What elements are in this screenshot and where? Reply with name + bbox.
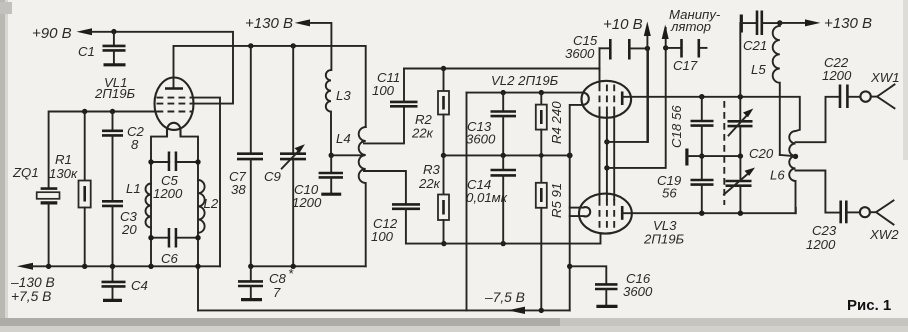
inductor L2: [198, 180, 219, 233]
wire C21 drop to anode line: [739, 23, 741, 97]
power +10V arrow and label: [603, 16, 651, 48]
power keying input (Manipulyator) arrow and label: [662, 7, 721, 39]
svg-text:L3: L3: [336, 88, 351, 103]
svg-text:C21: C21: [743, 38, 767, 53]
svg-text:L6: L6: [770, 168, 785, 183]
variable capacitor C20 gang link (dashed): [723, 101, 725, 205]
svg-text:22к: 22к: [411, 126, 434, 141]
node +10V junction: [645, 46, 650, 51]
svg-text:2П19Б: 2П19Б: [94, 86, 136, 101]
node R4/R5 mid: [539, 153, 544, 158]
node C17 tap on key line: [663, 45, 668, 50]
tube VL2: [582, 81, 632, 118]
svg-text:C23: C23: [812, 223, 837, 238]
capacitor C5: [148, 152, 200, 202]
capacitor C6: [148, 228, 200, 266]
inductor L6: [770, 131, 796, 213]
capacitor C16: [570, 266, 653, 306]
svg-text:100: 100: [371, 229, 394, 244]
wire L3 tap to L4: [331, 154, 364, 156]
capacitor C19: [657, 173, 714, 213]
wire L6 top tap to C22: [796, 97, 840, 142]
svg-text:+10 В: +10 В: [603, 16, 643, 33]
power +130V arrow and label (left): [245, 15, 331, 70]
svg-text:7: 7: [273, 285, 281, 300]
crystal ZQ1: [12, 165, 60, 266]
capacitor C22: [822, 55, 860, 108]
svg-text:XW1: XW1: [870, 70, 900, 85]
svg-text:L1: L1: [126, 181, 141, 196]
capacitor C3: [102, 135, 138, 266]
node C1 top junction: [111, 29, 116, 34]
wire L6 lower tap to C23: [796, 171, 840, 213]
wire driver mid bias line: [444, 154, 570, 156]
node C18/C19 mid: [699, 153, 704, 158]
svg-text:C18 56: C18 56: [669, 105, 684, 148]
capacitor C12: [364, 171, 444, 244]
power +130V arrow and label (right): [780, 15, 872, 32]
tube VL3 label: [643, 218, 685, 247]
capacitor C1: [78, 32, 126, 65]
node R1 top: [82, 109, 87, 114]
power -7.5V arrow and label: [484, 290, 525, 314]
svg-text:+130 В: +130 В: [245, 15, 293, 32]
svg-text:8: 8: [131, 137, 139, 152]
node R2/R3 mid: [441, 153, 446, 158]
capacitor C7: [229, 46, 263, 266]
svg-text:C8: C8: [269, 271, 287, 286]
inductor L4: [336, 127, 366, 266]
connector XW2: [860, 201, 899, 243]
svg-text:–7,5 В: –7,5 В: [484, 290, 525, 305]
svg-text:3600: 3600: [565, 46, 595, 61]
svg-text:С1: С1: [78, 44, 95, 59]
capacitor C17: [666, 39, 707, 73]
svg-text:ZQ1: ZQ1: [12, 165, 39, 180]
svg-text:2П19Б: 2П19Б: [643, 232, 685, 247]
tube VL1 label: [94, 75, 136, 101]
svg-text:R1: R1: [55, 152, 72, 167]
capacitor C4: [102, 266, 148, 300]
op anode supply bus wire (VL1 anode node): [174, 46, 366, 127]
svg-text:*: *: [288, 266, 294, 281]
svg-text:3600: 3600: [623, 284, 653, 299]
tube VL1: [155, 78, 194, 137]
node C8: [248, 264, 253, 269]
chassis tap bar: [687, 149, 702, 166]
wire VL3 filament leads: [570, 208, 584, 217]
svg-text:R3: R3: [423, 162, 441, 177]
svg-text:Рис. 1: Рис. 1: [847, 297, 891, 314]
svg-text:–130 В: –130 В: [10, 275, 55, 290]
wire VL3 anode / tank bottom line: [623, 208, 796, 213]
capacitor C14: [466, 155, 516, 243]
resistor R5 91: [536, 155, 564, 310]
node C19 bottom: [699, 211, 704, 216]
svg-text:+130 В: +130 В: [824, 15, 872, 32]
node C18 top: [699, 94, 704, 99]
inductor L3: [326, 70, 352, 155]
svg-text:R5 91: R5 91: [549, 183, 564, 218]
svg-text:20: 20: [121, 222, 137, 237]
svg-text:130к: 130к: [49, 166, 78, 181]
resistor R4 240: [536, 93, 564, 156]
svg-text:лятор: лятор: [670, 19, 711, 34]
wire key line to VL3 grid: [607, 28, 666, 168]
node mid bias to cathode line: [567, 153, 573, 159]
svg-text:XW2: XW2: [869, 227, 899, 242]
rail junction nodes: [46, 238, 201, 269]
wire L5 bottom to L6 tap: [780, 155, 796, 156]
node L6 tap: [793, 154, 798, 159]
node L5 top: [777, 20, 782, 25]
svg-text:1200: 1200: [806, 237, 836, 252]
wire VL2/VL3 filament cathode drop: [570, 105, 583, 311]
capacitor C13: [466, 93, 516, 156]
svg-text:L2: L2: [204, 196, 219, 211]
wire +10V screen feed drop: [646, 48, 648, 141]
filament tank box top wire: [151, 137, 167, 267]
node C16 tap: [567, 264, 572, 269]
inductor L1: [126, 181, 151, 228]
capacitor C23: [806, 201, 860, 253]
node bus C7: [248, 43, 253, 48]
wire screen feed (to +10V): [607, 48, 648, 141]
svg-text:+90 В: +90 В: [32, 25, 72, 42]
capacitor C10: [292, 155, 343, 210]
node key grid tap: [604, 165, 609, 170]
svg-text:C6: C6: [161, 251, 179, 266]
svg-text:C9: C9: [264, 169, 282, 184]
inductor L5: [751, 23, 780, 155]
wire -7.5V bottom return: [198, 309, 570, 311]
connector XW1: [860, 70, 899, 108]
svg-text:+7,5 В: +7,5 В: [11, 289, 51, 304]
variable capacitor C20 lower section: [724, 146, 774, 213]
node R5 bottom: [539, 308, 544, 313]
svg-text:L5: L5: [751, 62, 766, 77]
capacitor C11: [364, 69, 418, 144]
wire VL1 suppressor grid to negative rail: [194, 98, 221, 267]
wire VL1 control grid line: [49, 112, 155, 189]
capacitor C8: [238, 266, 294, 300]
tube VL3: [579, 194, 632, 234]
node C13/C14 mid: [501, 153, 506, 158]
svg-text:L4: L4: [336, 131, 351, 146]
svg-text:56: 56: [662, 186, 677, 201]
node R4 top: [539, 90, 544, 95]
variable capacitor C9: [264, 46, 306, 266]
wire inter-tube grid columns: [600, 69, 615, 200]
node R3 bottom: [441, 241, 446, 246]
negative common rail segment 2: [251, 265, 366, 267]
svg-text:C17: C17: [673, 58, 698, 73]
node C14 bottom: [501, 241, 506, 246]
svg-text:1200: 1200: [292, 195, 322, 210]
wire +90V rail to screen-grid drop: [90, 32, 233, 104]
node L3/C10 junction: [329, 153, 334, 158]
svg-text:100: 100: [372, 83, 395, 98]
node bus C9: [291, 43, 296, 48]
capacitor C2: [102, 112, 145, 153]
wire filament return drop: [466, 93, 468, 311]
capacitor C15: [565, 33, 647, 70]
power +90V arrow and label: [32, 25, 92, 42]
wire VL3 grid line: [444, 234, 601, 244]
svg-text:C4: C4: [131, 278, 148, 293]
svg-text:22к: 22к: [418, 176, 441, 191]
svg-text:38: 38: [231, 182, 246, 197]
resistor R2 22k: [411, 69, 449, 156]
svg-text:C20: C20: [749, 146, 774, 161]
node C20 bottom: [738, 211, 743, 216]
node C20 mid: [738, 153, 743, 158]
svg-text:R4 240: R4 240: [549, 101, 564, 144]
node C13 top: [501, 90, 506, 95]
node C2 top: [110, 109, 115, 114]
capacitor C21: [741, 11, 780, 54]
svg-text:0,01мк: 0,01мк: [466, 190, 508, 205]
capacitor C18: [669, 97, 714, 180]
svg-text:1200: 1200: [822, 68, 852, 83]
wire VL2 filament top line: [467, 92, 582, 94]
svg-text:1200: 1200: [153, 186, 183, 201]
node R2 top: [441, 66, 446, 71]
variable capacitor C20 upper section: [728, 97, 754, 156]
power -130V/+7.5V rail with arrow: [10, 263, 220, 304]
node C20a top: [738, 94, 743, 99]
resistor R1 130k: [49, 112, 91, 267]
svg-text:VL2 2П19Б: VL2 2П19Б: [491, 73, 559, 88]
node screen tap: [604, 139, 609, 144]
wire VL2 anode line: [623, 97, 800, 131]
resistor R3 22k: [418, 155, 449, 243]
wire mid tank line: [702, 155, 741, 157]
svg-text:3600: 3600: [466, 132, 496, 147]
wire VL2 grid1 line: [404, 68, 598, 70]
